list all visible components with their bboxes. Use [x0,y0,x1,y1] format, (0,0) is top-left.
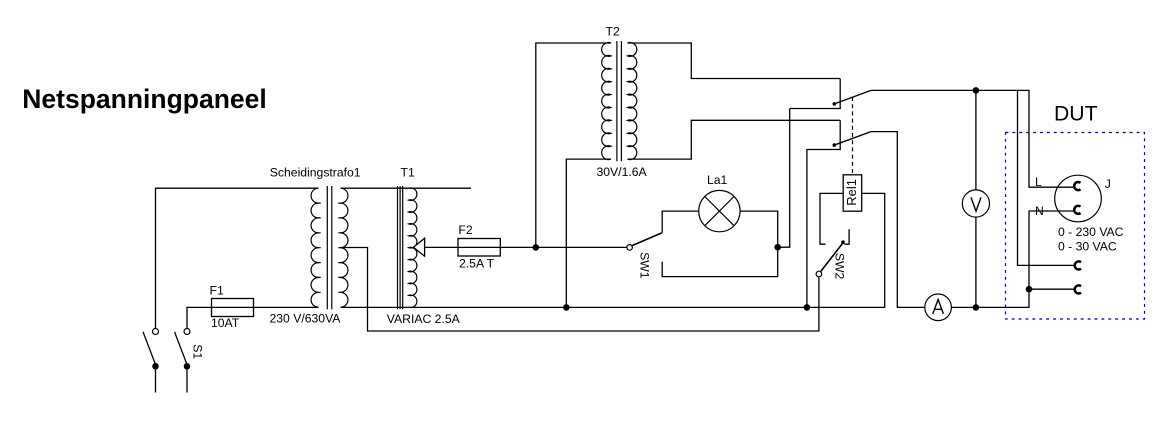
node K1b fixed to rail [804,304,811,311]
svg-text:L: L [1035,175,1042,189]
fuse F2 [458,223,500,271]
svg-text:0 - 230 VAC: 0 - 230 VAC [1058,225,1124,239]
wire secondary bottom rail [341,193,885,307]
wire 30V feed to DUT banana 1 [1018,90,1075,265]
wire wiper to F2 to SW1 [425,246,627,248]
svg-text:T1: T1 [401,166,415,180]
switch S1 [143,329,204,393]
wire S1 right pole to F1 and transformer primary bottom [187,307,319,328]
voltmeter V [962,90,989,307]
wire T2 primary bottom [566,159,611,307]
node lamp junction [774,244,781,251]
svg-text:F1: F1 [210,284,224,298]
transformer Scheidingstrafo1 [270,166,361,326]
svg-text:0 - 30 VAC: 0 - 30 VAC [1058,240,1117,254]
ammeter A [925,294,952,321]
node T2 primary return [563,304,570,311]
svg-text:Scheidingstrafo1: Scheidingstrafo1 [270,166,361,180]
node V meter top [973,87,980,94]
switch SW1 [627,233,662,279]
wire secondary mid-tap to SW2 pole [341,248,819,332]
svg-text:2.5A T: 2.5A T [459,257,495,271]
svg-text:T2: T2 [606,24,620,38]
svg-text:S1: S1 [190,344,204,359]
lamp La1 [699,173,740,232]
relay contact K1b (bottom, to 30V side) [807,120,871,307]
wire SW1 lower bypass branch [662,247,778,276]
socket J [1035,175,1111,222]
wire K1b output to ammeter [871,132,925,308]
DUT dashed enclosure [1006,133,1145,320]
transformer T1 (VARIAC) [387,166,461,326]
svg-text:La1: La1 [707,173,728,187]
relay contact K1a (top, to 230V side) [790,79,871,109]
wire SW1 upper contact to lamp [662,211,699,233]
svg-text:230 V/630VA: 230 V/630VA [270,312,342,326]
switch SW2 [816,229,849,279]
svg-text:DUT: DUT [1054,103,1098,126]
fuse F1 [210,284,254,331]
node DUT N branch [1026,286,1033,293]
variac wiper arrow [413,238,424,256]
node V meter bottom [973,304,980,311]
node T2 primary feed [533,244,540,251]
svg-text:F2: F2 [458,223,472,237]
wire junction up to relay contact K1a fixed [778,109,790,248]
svg-text:Netspanningpaneel: Netspanningpaneel [22,84,266,114]
wire T2 primary top [536,43,611,247]
svg-text:SW2: SW2 [832,253,846,280]
wire secondary top rail [341,187,471,189]
svg-text:Rel1: Rel1 [844,179,859,206]
wire lamp right to junction [740,211,778,247]
wire K1a output top rail to DUT L [871,90,1073,187]
wire T2 secondary top to relay contact [628,43,841,79]
banana jack 1 [1075,261,1081,269]
banana jack 2 [1075,285,1081,293]
svg-text:SW1: SW1 [638,252,652,279]
wire top primary (S1 left pole up to Scheidingstrafo1 primary top) [156,188,319,328]
wire ammeter output to DUT N [951,211,1073,307]
svg-text:J: J [1105,177,1111,191]
relay actuator dashed link [852,97,854,175]
relay coil Rel1 [843,175,862,211]
svg-text:N: N [1035,204,1044,218]
transformer T2 [597,24,648,179]
svg-text:30V/1.6A: 30V/1.6A [597,165,648,179]
svg-text:VARIAC 2.5A: VARIAC 2.5A [387,312,461,326]
wire T2 secondary bottom to relay contact [628,120,841,159]
svg-text:10AT: 10AT [211,316,240,330]
wire Rel1 left terminal to SW2 throw [820,193,843,244]
wire banana 2 branch [1029,288,1074,290]
